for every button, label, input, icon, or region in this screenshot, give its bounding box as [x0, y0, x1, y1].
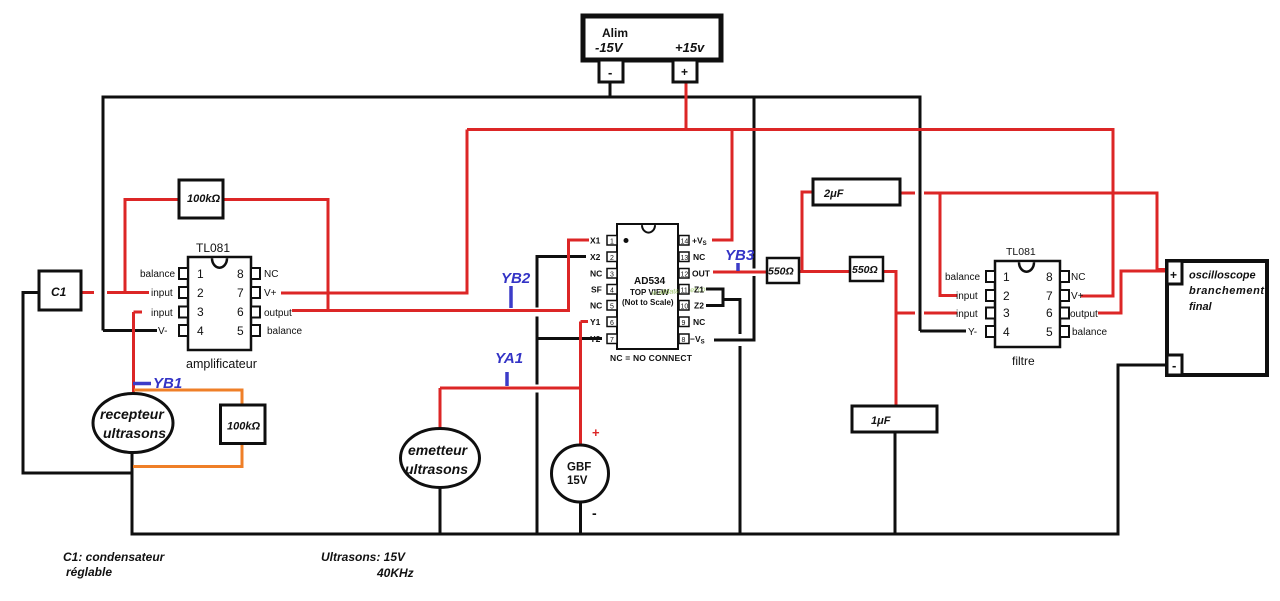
pin 10 Z2 [679, 301, 704, 311]
wire 2uF right line to scope plus [924, 192, 1159, 195]
svg-text:6: 6 [610, 320, 614, 327]
svg-text:2: 2 [197, 286, 204, 300]
pin 1 amplificateur [179, 268, 188, 279]
node YA1 tick [505, 372, 509, 386]
svg-text:balance: balance [267, 326, 302, 337]
pin 1 X1 [590, 236, 617, 246]
wire orange recepteur to 100k top [134, 390, 242, 406]
svg-text:TL081: TL081 [1006, 246, 1036, 258]
svg-text:7: 7 [237, 286, 244, 300]
pin 11 Z1 [679, 285, 704, 295]
multiplier U2 AD534 [610, 224, 706, 363]
pin 5 NC [590, 301, 617, 311]
svg-text:1: 1 [1003, 270, 1010, 284]
resistor 550 first [767, 258, 799, 283]
svg-text:5: 5 [610, 304, 614, 311]
wire input pin3 stub [134, 311, 143, 314]
svg-text:C1: condensateur: C1: condensateur [63, 550, 166, 564]
svg-text:550Ω: 550Ω [768, 266, 794, 278]
resistor 550 second [850, 257, 883, 281]
wire node B branch to input pin3 right part [924, 312, 957, 315]
wire feedback 100k top left segment [124, 198, 180, 201]
svg-text:output: output [264, 308, 292, 319]
wire Y1 riser down to YA1 line [579, 322, 582, 390]
wire common vertical X2/Y2 middle segment [536, 317, 539, 385]
oscilloscope plus terminal [1167, 261, 1182, 284]
svg-text:YB3: YB3 [725, 247, 755, 264]
svg-text:(Not to Scale): (Not to Scale) [622, 298, 674, 307]
svg-text:-15V: -15V [595, 40, 624, 55]
svg-text:input: input [956, 309, 978, 320]
svg-text:12: 12 [681, 272, 689, 279]
svg-text:input: input [956, 291, 978, 302]
wire input pin3 vertical down to recepteur [132, 312, 135, 395]
wire Y- of filtre [920, 330, 966, 333]
wire C1 to input pin2 right part [107, 291, 149, 294]
pin 4 SF [591, 285, 617, 295]
pin 12 OUT [679, 269, 711, 279]
svg-text:4: 4 [610, 288, 614, 295]
wire feedback 100k top right segment [223, 198, 330, 201]
pin 7 Y2 [590, 334, 617, 344]
svg-text:13: 13 [681, 255, 689, 262]
svg-text:Z2: Z2 [694, 301, 704, 311]
svg-text:Y2: Y2 [590, 334, 601, 344]
svg-text:-: - [608, 65, 612, 80]
wire X1 riser [567, 240, 570, 312]
wire oscilloscope minus to bottom bus [1118, 365, 1167, 535]
wire +15V red feed from Alim plus [685, 82, 688, 131]
wire scope plus drop [1157, 193, 1167, 270]
svg-text:2μF: 2μF [823, 188, 844, 200]
svg-text:+15v: +15v [675, 40, 705, 55]
svg-text:réglable: réglable [66, 565, 112, 579]
svg-text:TL081: TL081 [196, 241, 230, 255]
wire red bus left drop to V+ amplificateur [466, 130, 469, 295]
svg-text:+: + [1170, 268, 1177, 282]
wire node B branch to input pin3 left part [896, 312, 915, 315]
svg-text:recepteur: recepteur [100, 406, 165, 422]
svg-text:AD534: AD534 [634, 276, 666, 287]
wire bottom ground bus [131, 533, 1120, 536]
wire +Vs drop to AD534 pin14 [712, 130, 732, 241]
svg-text:X1: X1 [590, 236, 601, 246]
svg-text:X2: X2 [590, 252, 601, 262]
svg-text:balance: balance [140, 269, 175, 280]
svg-text:ultrasons: ultrasons [103, 425, 166, 441]
svg-text:input: input [151, 308, 173, 319]
pin 2 filtre [986, 290, 995, 301]
wire Alim minus terminal drop [609, 82, 612, 97]
pin 1 filtre [986, 271, 995, 282]
wire feedback right vertical to output [327, 200, 330, 311]
svg-text:6: 6 [237, 305, 244, 319]
svg-text:550Ω: 550Ω [852, 264, 878, 276]
svg-text:8: 8 [1046, 270, 1053, 284]
svg-text:branchement: branchement [1189, 285, 1265, 297]
svg-text:2: 2 [610, 255, 614, 262]
wire left vertical from top bus to V- [102, 96, 105, 331]
svg-text:3: 3 [610, 272, 614, 279]
svg-text:7: 7 [1046, 289, 1053, 303]
wire Z junction branch [722, 300, 741, 335]
svg-text:input: input [151, 288, 173, 299]
wire Y- riser from top bus [919, 97, 922, 331]
svg-text:emetteur: emetteur [408, 442, 469, 458]
svg-text:14: 14 [681, 239, 689, 246]
wire feedback left vertical to input pin2 [124, 200, 127, 293]
pin 9 NC [679, 317, 705, 327]
svg-text:1: 1 [197, 267, 204, 281]
wire node B vertical to 1uF [895, 272, 898, 407]
oscilloscope box [1167, 261, 1267, 375]
svg-text:Y-: Y- [968, 327, 977, 338]
wire -Vs pin8 horizontal [714, 339, 756, 342]
pin 7 filtre [1060, 290, 1069, 301]
svg-text:4: 4 [197, 324, 204, 338]
svg-text:40KHz: 40KHz [376, 566, 414, 580]
wire drop to input pin2 filtre [940, 193, 957, 296]
svg-text:final: final [1189, 301, 1213, 313]
svg-text:SF: SF [591, 285, 602, 295]
pin 2 X2 [590, 252, 617, 262]
svg-text:NC: NC [693, 252, 705, 262]
svg-text:GBF: GBF [567, 462, 591, 474]
wire -Vs riser lower segment [753, 276, 756, 340]
wire C1 to input pin2 left part [81, 291, 94, 294]
svg-text:6: 6 [1046, 306, 1053, 320]
capacitor C1 [39, 271, 81, 310]
svg-text:NC: NC [693, 317, 705, 327]
svg-text:YB1: YB1 [153, 375, 182, 392]
wire 1uF bottom [894, 432, 897, 534]
oscilloscope minus terminal [1167, 355, 1182, 375]
svg-text:oscilloscope: oscilloscope [1189, 270, 1256, 282]
wire recepteur bottom vertical [131, 450, 134, 535]
pin 3 filtre [986, 308, 995, 319]
svg-text:-: - [592, 505, 597, 521]
pin 3 amplificateur [179, 307, 188, 318]
pin 8 -Vs [679, 334, 705, 346]
wire emetteur drop [439, 388, 442, 431]
pin 4 amplificateur [179, 325, 188, 336]
wire orange 100k bottom loop back [133, 443, 242, 467]
svg-text:balance: balance [1072, 327, 1107, 338]
svg-text:-: - [1172, 358, 1176, 373]
svg-text:10: 10 [681, 304, 689, 311]
svg-text:Z1: Z1 [694, 285, 704, 295]
wire Y1 stub [581, 320, 589, 323]
svg-text:NC: NC [590, 269, 602, 279]
svg-text:YB2: YB2 [501, 270, 531, 287]
wire V+ pin7 amplificateur [281, 292, 469, 295]
op-amp U3 TL081 filtre [945, 246, 1107, 368]
svg-text:V+: V+ [264, 288, 277, 299]
pin 3 NC [590, 269, 617, 279]
svg-text:100kΩ: 100kΩ [227, 421, 260, 433]
wire X2 to common vertical [537, 255, 586, 258]
wire output filtre stub [1098, 312, 1123, 315]
wire common vertical X2/Y2 lower segment [536, 393, 539, 535]
svg-text:1: 1 [610, 239, 614, 246]
svg-text:7: 7 [610, 337, 614, 344]
power supply plus terminal [673, 60, 697, 82]
wire V+ pin7 filtre [1081, 295, 1115, 298]
svg-text:V+: V+ [1071, 291, 1084, 302]
svg-text:OUT: OUT [692, 269, 711, 279]
svg-text:+: + [592, 425, 600, 440]
capacitor 2uF [813, 179, 900, 205]
recepteur ultrasons transducer [93, 394, 173, 453]
wire emetteur bottom [439, 485, 442, 534]
pin 6 Y1 [590, 317, 617, 327]
pin 8 amplificateur [251, 268, 260, 279]
pin 5 filtre [1060, 326, 1069, 337]
wire YA1 line emetteur to GBF [440, 387, 581, 390]
svg-text:NC = NO CONNECT: NC = NO CONNECT [610, 353, 693, 363]
power supply minus terminal [599, 60, 623, 82]
pin 13 NC [679, 252, 705, 262]
wire GBF plus drop [579, 388, 582, 446]
svg-text:balance: balance [945, 272, 980, 283]
pin 14 +Vs [679, 236, 707, 248]
wire top black bus -15V [102, 96, 922, 99]
wire -Vs riser upper segment [753, 96, 756, 269]
wire Y2 horizontal [537, 337, 602, 340]
svg-text:NC: NC [590, 301, 602, 311]
emetteur ultrasons transducer [401, 429, 480, 488]
svg-text:Alim: Alim [602, 26, 628, 40]
wire V- of amplificateur [103, 329, 157, 332]
node YB2 tick [509, 286, 513, 308]
pin 5 amplificateur [251, 325, 260, 336]
svg-text:NC: NC [1071, 272, 1085, 283]
power supply Alim box [583, 16, 721, 60]
wire output amplificateur to X1 riser YB2 line [292, 309, 570, 312]
svg-text:Ultrasons: 15V: Ultrasons: 15V [321, 550, 406, 564]
wire after second 550 [883, 270, 898, 273]
wire Z drop to bottom bus [739, 346, 742, 534]
svg-text:100kΩ: 100kΩ [187, 193, 220, 205]
pin 6 filtre [1060, 308, 1069, 319]
resistor R2 100k load [221, 405, 266, 444]
svg-text:5: 5 [1046, 325, 1053, 339]
svg-text:output: output [1070, 309, 1098, 320]
pin 2 amplificateur [179, 287, 188, 298]
wire between 550 resistors [799, 270, 850, 273]
wire Z1 to Z2 bracket [706, 289, 723, 306]
capacitor 1uF [852, 406, 937, 432]
svg-text:3: 3 [197, 305, 204, 319]
wire 2uF right line left part [900, 192, 915, 195]
wire red bus right drop to V+ filtre [1112, 130, 1115, 297]
svg-text:C1: C1 [51, 285, 67, 299]
wire output filtre riser to scope plus [1121, 271, 1165, 315]
svg-text:15V: 15V [567, 475, 588, 487]
svg-text:8: 8 [682, 337, 686, 344]
pin 8 filtre [1060, 271, 1069, 282]
node YB3 tick [736, 263, 740, 271]
svg-text:amplificateur: amplificateur [186, 357, 257, 371]
svg-text:4: 4 [1003, 325, 1010, 339]
node YB1 tick [133, 382, 151, 386]
svg-text:ultrasons: ultrasons [405, 461, 468, 477]
pin 4 filtre [986, 326, 995, 337]
svg-text:NC: NC [264, 269, 278, 280]
svg-text:2: 2 [1003, 289, 1010, 303]
svg-text:+: + [681, 65, 688, 79]
svg-text:8: 8 [237, 267, 244, 281]
wire common vertical X2/Y2 upper segment [536, 255, 539, 308]
generator GBF [552, 425, 609, 521]
wire GBF bottom [579, 501, 582, 534]
wire X1 stub [567, 239, 589, 242]
resistor R1 100k feedback [179, 180, 223, 218]
svg-text:YA1: YA1 [495, 350, 523, 367]
wire 2uF left drop [802, 192, 813, 272]
svg-text:V-: V- [158, 326, 167, 337]
wire C1 left plate to ground [23, 293, 134, 474]
wire +15V red bus [467, 128, 1115, 131]
svg-text:3: 3 [1003, 306, 1010, 320]
svg-text:11: 11 [681, 288, 688, 295]
svg-text:9: 9 [682, 320, 686, 327]
svg-text:filtre: filtre [1012, 354, 1035, 368]
pin 7 amplificateur [251, 287, 260, 298]
wire OUT pin12 to 550 [713, 271, 767, 274]
svg-text:5: 5 [237, 324, 244, 338]
svg-text:1μF: 1μF [871, 415, 891, 427]
svg-text:Y1: Y1 [590, 317, 601, 327]
op-amp U1 TL081 amplificateur [140, 241, 302, 371]
pin 6 amplificateur [251, 307, 260, 318]
